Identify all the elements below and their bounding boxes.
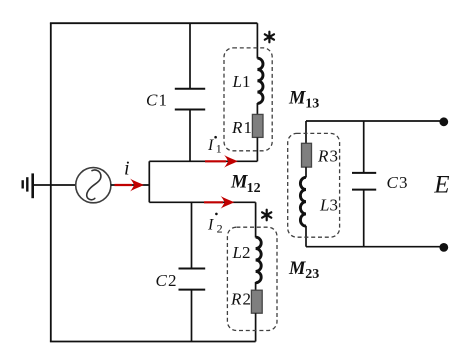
svg-text:2: 2 [243, 290, 252, 309]
terminal node bottom [439, 243, 448, 252]
inductor L2 [256, 237, 262, 283]
svg-text:13: 13 [305, 97, 319, 112]
svg-text:E: E [433, 172, 449, 199]
svg-text:L: L [232, 243, 242, 262]
svg-text:M: M [230, 173, 248, 193]
source U1 (AC source circle) [76, 168, 111, 203]
svg-text:3: 3 [399, 173, 408, 192]
dashed box R3L3 [288, 133, 340, 237]
dashed box L2R2 [227, 227, 277, 330]
capacitor C3 [352, 122, 376, 247]
resistor R3 [302, 143, 312, 167]
svg-text:R: R [317, 147, 329, 166]
wire outer-left vertical [50, 23, 52, 341]
resistor R2 [251, 290, 262, 313]
wire R1 down [256, 137, 258, 161]
capacitor C1 [175, 23, 205, 161]
svg-text:1: 1 [216, 142, 222, 156]
wire R2 down [255, 313, 257, 341]
L2 R2 branch wire top [255, 202, 257, 237]
ground [23, 173, 33, 198]
svg-text:L: L [232, 72, 242, 91]
dot-convention asterisk top [265, 32, 274, 43]
wire top middle [149, 160, 257, 162]
svg-text:C: C [146, 90, 158, 109]
svg-text:R: R [230, 290, 242, 309]
svg-text:1: 1 [244, 118, 253, 137]
terminal node top [439, 117, 448, 126]
wire R3 to L3 [305, 167, 307, 177]
wire bottom middle [149, 201, 255, 203]
svg-text:3: 3 [330, 196, 339, 215]
dashed box L1R1 [224, 48, 272, 151]
svg-text:M: M [288, 259, 306, 279]
capacitor C2 [179, 202, 206, 341]
current arrow I1 [205, 155, 238, 168]
svg-text:i: i [124, 158, 130, 180]
wire right-network bottom [306, 246, 444, 248]
svg-text:C: C [387, 173, 399, 192]
svg-text:2: 2 [242, 243, 251, 262]
wire source to split [111, 184, 149, 186]
svg-text:2: 2 [217, 221, 223, 235]
inductor L3 [300, 177, 306, 226]
svg-text:I: I [207, 137, 214, 154]
wire top rail [50, 22, 258, 24]
dot-convention asterisk bottom [262, 210, 271, 221]
svg-text:M: M [288, 88, 306, 108]
wire ground to source [34, 184, 76, 186]
svg-text:2: 2 [168, 271, 177, 290]
svg-text:I: I [207, 216, 214, 233]
inductor L1 [257, 58, 263, 103]
wire bottom rail [50, 341, 256, 343]
node split vertical [148, 161, 150, 202]
svg-text:3: 3 [330, 147, 339, 166]
svg-text:L: L [319, 196, 329, 215]
svg-text:C: C [156, 271, 168, 290]
L1 R1 branch wire top [256, 23, 258, 58]
current arrow i [115, 178, 144, 191]
resistor R1 [252, 114, 263, 137]
wire L3 down [305, 226, 307, 247]
wire L1 to R1 [256, 103, 258, 115]
wire right-network top [306, 120, 444, 122]
wire L2 to R2 [255, 282, 257, 290]
wire R3 top [305, 121, 307, 144]
svg-text:1: 1 [242, 72, 251, 91]
svg-text:23: 23 [305, 267, 319, 282]
svg-text:R: R [231, 118, 243, 137]
current arrow I2 [204, 196, 234, 209]
svg-text:1: 1 [159, 90, 168, 109]
svg-text:12: 12 [247, 181, 261, 196]
